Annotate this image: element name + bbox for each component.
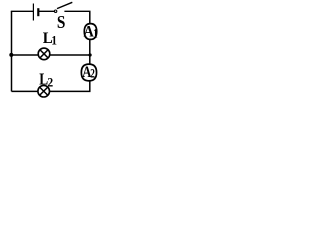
- switch S pivot circle: [54, 10, 56, 12]
- ammeter A2: [81, 64, 96, 81]
- svg-text:1: 1: [93, 26, 97, 40]
- battery long plate: [32, 4, 34, 21]
- ammeter A1: [84, 24, 96, 40]
- svg-text:S: S: [57, 12, 66, 32]
- lamp L1: [38, 48, 50, 60]
- junction dot right: [89, 53, 92, 56]
- wire: right vertical: [89, 11, 91, 91]
- switch blade: [57, 2, 72, 8]
- lamp L2: [38, 85, 50, 97]
- svg-text:1: 1: [51, 33, 57, 47]
- wire: left vertical: [11, 11, 13, 91]
- battery short plate: [37, 8, 39, 16]
- wire: bottom horizontal: [12, 90, 91, 92]
- svg-text:2: 2: [90, 67, 95, 81]
- svg-text:2: 2: [47, 76, 53, 90]
- junction dot left: [9, 53, 13, 57]
- wire: battery to switch: [38, 10, 54, 12]
- wire: middle horizontal: [12, 54, 91, 56]
- wire: switch to top-right corner: [64, 10, 90, 12]
- wire: top left segment to battery: [11, 10, 33, 12]
